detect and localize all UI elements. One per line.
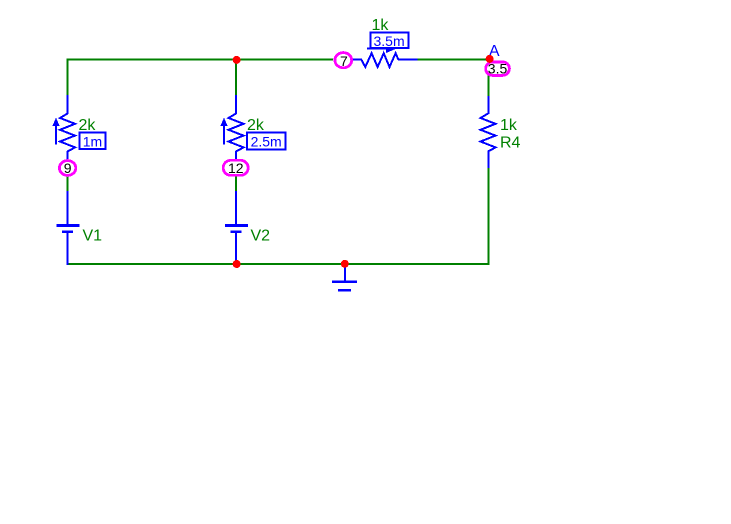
svg-text:2k: 2k xyxy=(79,117,97,134)
svg-text:1k: 1k xyxy=(500,117,518,134)
svg-text:3.5: 3.5 xyxy=(488,61,508,77)
svg-text:3.5m: 3.5m xyxy=(374,33,405,49)
svg-text:2k: 2k xyxy=(247,117,265,134)
svg-text:1k: 1k xyxy=(372,17,390,34)
svg-text:2.5m: 2.5m xyxy=(251,134,282,150)
svg-text:1m: 1m xyxy=(83,133,102,149)
svg-text:V2: V2 xyxy=(251,228,271,245)
svg-text:12: 12 xyxy=(228,160,244,176)
svg-text:V1: V1 xyxy=(83,228,103,245)
svg-text:R4: R4 xyxy=(500,135,521,152)
svg-text:7: 7 xyxy=(340,53,348,69)
svg-text:9: 9 xyxy=(64,160,72,176)
